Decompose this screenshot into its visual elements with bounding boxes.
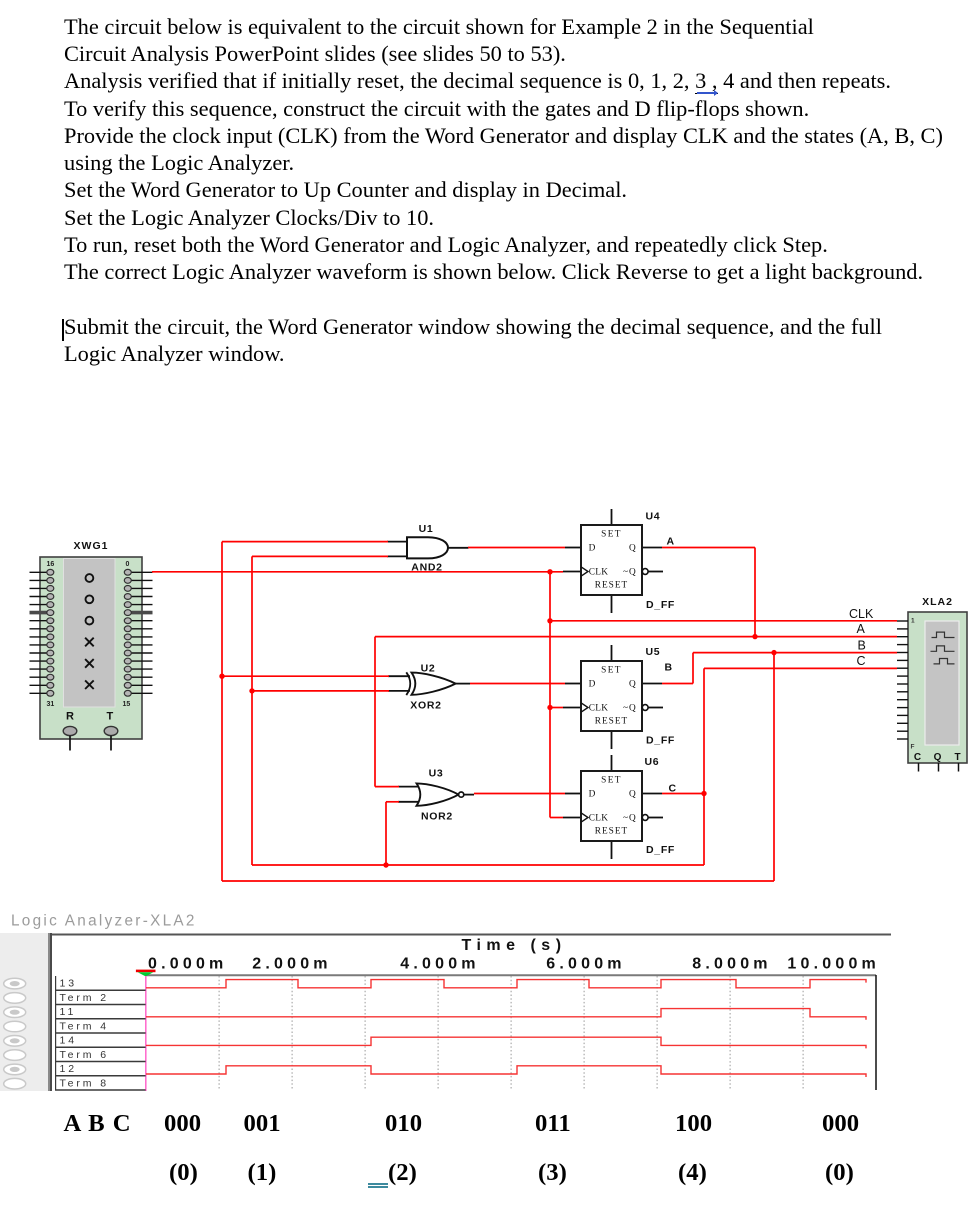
D flip-flop U4 (D_FF) <box>563 509 675 613</box>
svg-text:D: D <box>589 789 596 799</box>
wire net B: U5 Q output to XLA2, AND2 and XOR2 inputs <box>222 542 897 881</box>
Logic Analyzer window title <box>11 913 197 930</box>
svg-text:~Q: ~Q <box>623 813 637 823</box>
svg-text:SET: SET <box>601 529 622 539</box>
AND gate U1 (AND2) <box>387 523 469 574</box>
svg-text:U1: U1 <box>419 523 434 535</box>
node B junction to bottom rail <box>771 650 776 655</box>
svg-text:10.000m: 10.000m <box>787 956 880 973</box>
wire CLK net: XWG1 pin 0 to U4/U5/U6 CLK and XLA2 pin 1 <box>152 572 897 818</box>
svg-text:XOR2: XOR2 <box>410 700 441 712</box>
svg-text:4.000m: 4.000m <box>400 956 479 973</box>
svg-text:D_FF: D_FF <box>646 735 675 747</box>
svg-text:NOR2: NOR2 <box>421 811 453 823</box>
XOR gate U2 (XOR2) <box>388 663 470 712</box>
svg-text:A: A <box>667 536 675 548</box>
node label C at XLA2 <box>857 654 866 668</box>
svg-text:U6: U6 <box>645 756 660 768</box>
NOR gate U3 (NOR2) <box>398 768 474 823</box>
node label B at XLA2 <box>858 639 866 653</box>
svg-text:Time (s): Time (s) <box>461 937 566 954</box>
node C junction to NOR2 input <box>383 862 388 867</box>
svg-text:U3: U3 <box>429 768 444 780</box>
svg-text:16: 16 <box>47 561 55 568</box>
wire XOR2 output to U5 D <box>470 683 565 685</box>
svg-text:B: B <box>858 639 866 653</box>
time axis header <box>148 937 880 973</box>
svg-text:RESET: RESET <box>595 716 628 726</box>
D flip-flop U6 (D_FF) <box>563 755 677 859</box>
document instruction text <box>64 13 978 368</box>
svg-text:Q: Q <box>934 752 942 763</box>
svg-text:B: B <box>665 662 673 674</box>
svg-text:11: 11 <box>60 1006 77 1018</box>
svg-text:Term 4: Term 4 <box>60 1020 110 1032</box>
svg-text:A: A <box>857 622 866 636</box>
node C junction at XOR2 input <box>249 688 254 693</box>
node CLK junction at U5 clock <box>547 705 552 710</box>
svg-text:13: 13 <box>60 978 77 990</box>
oscilloscope channel buttons <box>4 978 26 1089</box>
grammar mark before (2) <box>368 1183 388 1185</box>
svg-text:~Q: ~Q <box>623 703 637 713</box>
waveform grid and borders <box>146 975 876 1090</box>
svg-text:D: D <box>589 679 596 689</box>
svg-text:6.000m: 6.000m <box>546 956 625 973</box>
svg-text:Q: Q <box>629 679 636 689</box>
svg-text:~Q: ~Q <box>623 567 637 577</box>
wire net C: U6 Q output to XLA2, AND2, XOR2 and NOR2 inputs <box>252 556 897 865</box>
wire AND2 output to U4 D <box>468 547 565 549</box>
node label CLK at XLA2 <box>849 607 874 621</box>
waveform trace CLK (term 13) <box>146 980 866 988</box>
node C junction at U6 output <box>701 791 706 796</box>
wire net A: U4 Q output to XLA2 and NOR2 input <box>375 548 897 787</box>
svg-text:8.000m: 8.000m <box>692 956 771 973</box>
svg-text:SET: SET <box>601 665 622 675</box>
svg-text:T: T <box>954 752 960 763</box>
node label A at XLA2 <box>857 622 866 636</box>
svg-text:CLK: CLK <box>849 607 874 621</box>
svg-text:CLK: CLK <box>589 703 609 713</box>
svg-text:Logic Analyzer-XLA2: Logic Analyzer-XLA2 <box>11 913 197 930</box>
svg-text:U4: U4 <box>646 511 661 523</box>
node A junction <box>752 634 757 639</box>
svg-text:2.000m: 2.000m <box>252 956 331 973</box>
svg-text:Q: Q <box>629 789 636 799</box>
state sequence row ABC <box>64 1110 131 1138</box>
svg-text:CLK: CLK <box>589 567 609 577</box>
tracked-change blue mark under "3 ," <box>697 92 717 94</box>
svg-text:Q: Q <box>629 543 636 553</box>
Logic Analyzer window chrome <box>0 933 891 1091</box>
svg-text:XLA2: XLA2 <box>922 596 953 608</box>
t=0 cursor <box>136 970 156 1091</box>
svg-text:F: F <box>911 744 915 751</box>
node B junction at XOR2 input <box>219 674 224 679</box>
svg-text:Term 2: Term 2 <box>60 992 110 1004</box>
svg-text:Term 6: Term 6 <box>60 1049 110 1061</box>
text cursor before Submit <box>62 319 63 341</box>
svg-text:XWG1: XWG1 <box>74 540 109 552</box>
word generator XWG1 <box>30 540 153 751</box>
state sequence row decimal <box>169 1159 198 1187</box>
svg-text:D_FF: D_FF <box>646 844 675 856</box>
svg-text:CLK: CLK <box>589 813 609 823</box>
svg-text:14: 14 <box>60 1035 77 1047</box>
waveform trace B (term 14) <box>146 1037 866 1048</box>
svg-text:15: 15 <box>123 701 131 708</box>
svg-text:SET: SET <box>601 775 622 785</box>
svg-text:T: T <box>107 711 114 723</box>
svg-text:D_FF: D_FF <box>646 599 675 611</box>
svg-text:D: D <box>589 543 596 553</box>
node CLK junction at U4 clock <box>547 569 552 574</box>
svg-text:U2: U2 <box>421 663 436 675</box>
svg-text:12: 12 <box>60 1063 77 1075</box>
svg-text:0: 0 <box>126 561 130 568</box>
svg-text:C: C <box>857 654 866 668</box>
svg-text:31: 31 <box>47 701 55 708</box>
svg-text:RESET: RESET <box>595 580 628 590</box>
node CLK junction to XLA2 <box>547 618 552 623</box>
svg-text:R: R <box>66 711 74 723</box>
logic analyzer instrument XLA2 <box>897 596 967 772</box>
svg-text:U5: U5 <box>646 646 661 658</box>
waveform trace C (term 12) <box>146 1066 866 1077</box>
D flip-flop U5 (D_FF) <box>563 645 675 749</box>
svg-text:C: C <box>914 752 921 763</box>
wire NOR2 output to U6 D <box>474 793 565 795</box>
svg-text:1: 1 <box>911 618 915 625</box>
channel label rows <box>55 976 146 1090</box>
svg-text:Term 8: Term 8 <box>60 1077 110 1089</box>
svg-text:RESET: RESET <box>595 826 628 836</box>
svg-text:0.000m: 0.000m <box>148 956 227 973</box>
waveform trace A (term 11) <box>146 1009 866 1020</box>
